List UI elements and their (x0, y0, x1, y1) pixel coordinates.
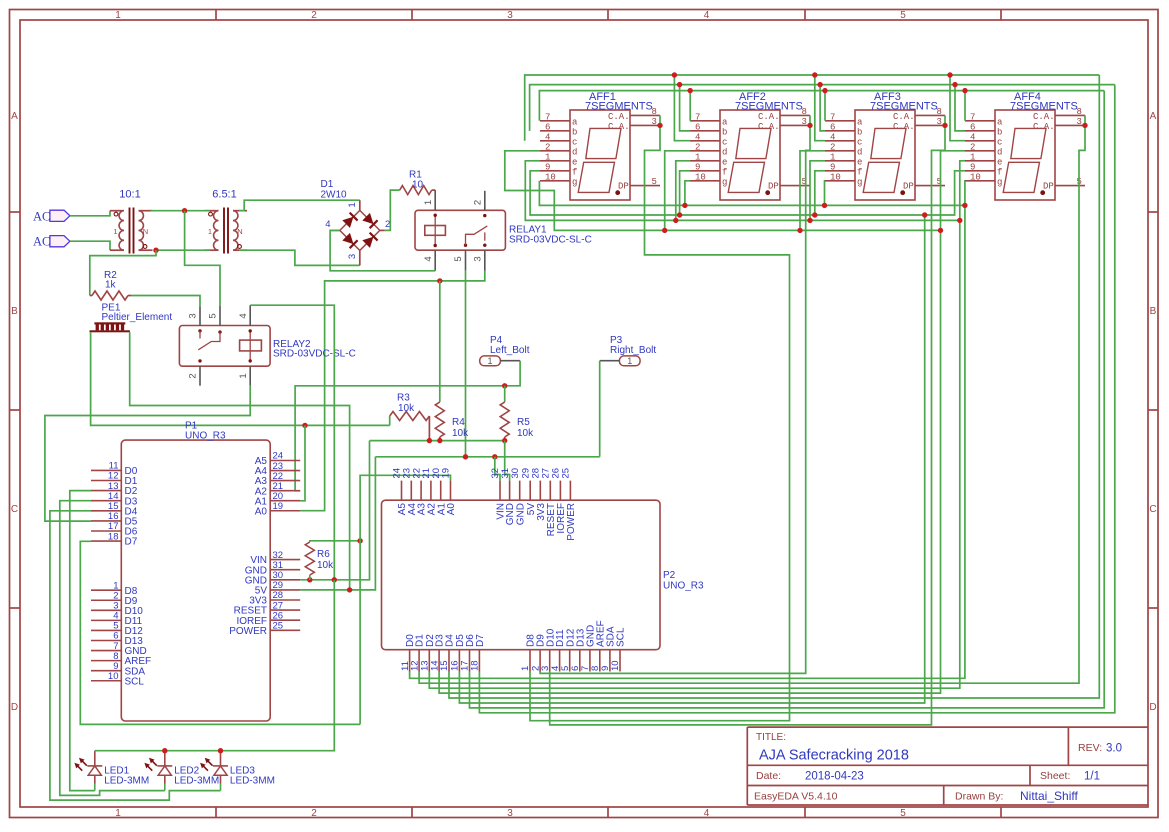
netport AC2 (50, 236, 70, 247)
resistor R5 10k (500, 402, 509, 437)
svg-text:LED-3MM: LED-3MM (174, 776, 219, 787)
wire AFF2 a up (689, 91, 691, 121)
svg-text:4: 4 (830, 132, 835, 142)
wire RELAY1 pin3 to A0 net (300, 271, 485, 511)
svg-text:6: 6 (695, 122, 700, 132)
svg-text:Drawn By:: Drawn By: (955, 791, 1003, 803)
svg-text:9: 9 (545, 162, 550, 172)
svg-text:C.A.: C.A. (608, 112, 630, 122)
svg-text:g: g (572, 177, 577, 187)
svg-text:2018-04-23: 2018-04-23 (805, 771, 864, 783)
wire P1 D3 to LED2 (60, 501, 165, 796)
svg-text:d: d (572, 147, 577, 157)
wire bus f (y=215.0) (530, 171, 965, 215)
svg-text:SCL: SCL (125, 676, 145, 687)
svg-text:3: 3 (1077, 117, 1082, 127)
wire AFF2 f down (680, 171, 691, 215)
svg-text:5: 5 (900, 10, 906, 21)
node AFF2 CA junction (807, 123, 812, 128)
svg-text:LED-3MM: LED-3MM (230, 776, 275, 787)
svg-text:B: B (1150, 306, 1157, 317)
svg-text:D4: D4 (445, 634, 456, 647)
svg-text:1: 1 (830, 152, 835, 162)
svg-text:UNO_R3: UNO_R3 (185, 431, 226, 442)
wire bus a down to P2 D6 (470, 91, 1105, 708)
svg-text:18: 18 (470, 660, 481, 671)
wire junction down to RELAY2 pin5 (185, 211, 220, 306)
svg-text:a: a (722, 117, 728, 127)
svg-text:2: 2 (545, 142, 550, 152)
svg-text:2: 2 (830, 142, 835, 152)
svg-text:Date:: Date: (756, 770, 781, 782)
svg-text:5: 5 (453, 256, 464, 261)
connector P4 Left_Bolt (480, 335, 530, 366)
svg-text:C.A.: C.A. (1033, 112, 1055, 122)
wire R1 to RELAY1 pin1 (432, 189, 436, 191)
svg-text:2: 2 (473, 200, 484, 205)
wire AFF4 d down to P2 D3 (439, 151, 965, 693)
svg-text:g: g (997, 177, 1002, 187)
wire bus c down to P2 D4 (449, 75, 1099, 698)
wire bus f down to P2 D5 (459, 215, 924, 703)
svg-text:AC: AC (33, 235, 50, 249)
svg-text:2: 2 (311, 10, 317, 21)
svg-text:2: 2 (311, 808, 317, 819)
wire AFF4 e down to P2 D2 (429, 161, 965, 688)
svg-text:AFF1: AFF1 (589, 91, 616, 103)
svg-text:e: e (997, 157, 1002, 167)
svg-text:e: e (722, 157, 727, 167)
svg-text:3: 3 (473, 256, 484, 261)
node VIN32 junction (492, 454, 497, 459)
svg-text:6: 6 (545, 122, 550, 132)
wire PE1 left to A1 net (91, 332, 390, 425)
wire T2 secondary top to D1 pin1 (239, 200, 360, 211)
node AFF2 f junction (677, 212, 682, 217)
svg-text:10: 10 (970, 172, 981, 182)
node AFF1 CA junction (657, 123, 662, 128)
svg-text:g: g (722, 177, 727, 187)
wire P1 D4 to LED3 (50, 511, 221, 800)
svg-text:7: 7 (545, 112, 550, 122)
svg-text:C.A.: C.A. (1033, 122, 1055, 132)
svg-text:8: 8 (652, 107, 657, 117)
peltier element PE1 (90, 303, 173, 333)
node AFF3 a junction (822, 88, 827, 93)
node AFF2 a junction (688, 88, 693, 93)
wire GND bus (370, 440, 505, 442)
svg-text:3: 3 (802, 117, 807, 127)
node AFF3 e junction (807, 218, 812, 223)
wire bus g (y=205.4) (539, 181, 965, 206)
svg-text:Nittai_Shiff: Nittai_Shiff (1020, 789, 1078, 803)
svg-text:b: b (997, 127, 1002, 137)
svg-text:3: 3 (188, 313, 199, 318)
wire VIN bus down to 5V row (300, 457, 375, 590)
svg-text:A: A (1150, 111, 1157, 122)
wire bus e (y=220.4) (525, 161, 960, 221)
svg-text:f: f (997, 167, 1002, 177)
svg-text:1k: 1k (105, 280, 117, 291)
transformer T1 10:1 (110, 189, 153, 254)
wire P1 D2 to LED1 (70, 491, 95, 791)
wire GND31 from GND bus (505, 441, 510, 481)
svg-text:9: 9 (830, 162, 835, 172)
svg-text:g: g (857, 177, 862, 187)
wire AFF2 d down (665, 151, 691, 231)
transformer T2 6.5:1 (205, 189, 248, 254)
svg-text:AJA Safecracking 2018: AJA Safecracking 2018 (759, 748, 909, 764)
wire P3 down to VIN bus (599, 361, 601, 457)
wire LED anode bus (95, 580, 334, 751)
svg-text:9: 9 (695, 162, 700, 172)
wire R6 top to A0/D7 net (310, 541, 360, 542)
svg-text:1: 1 (113, 227, 117, 236)
svg-text:2: 2 (695, 142, 700, 152)
wire RELAY1 pin5 down to 5V bus (465, 270, 467, 456)
wire VIN32 from VIN bus (495, 457, 500, 481)
node A1 junction (302, 423, 307, 428)
svg-text:3: 3 (507, 808, 513, 819)
wire AFF4 c up (950, 75, 965, 141)
svg-text:REV:: REV: (1078, 742, 1102, 754)
svg-text:C.A.: C.A. (758, 112, 780, 122)
title block (747, 727, 1148, 805)
node R4 bottom junction (437, 438, 442, 443)
svg-text:2: 2 (188, 373, 199, 378)
svg-text:d: d (997, 147, 1002, 157)
svg-text:GND: GND (515, 503, 526, 525)
svg-text:SCL: SCL (616, 627, 627, 647)
svg-text:10k: 10k (452, 428, 469, 439)
svg-text:AC: AC (33, 209, 50, 223)
svg-text:10: 10 (412, 180, 424, 191)
svg-text:f: f (722, 167, 727, 177)
relay RELAY2 SRD-03VDC-SL-C (179, 305, 355, 386)
svg-text:a: a (572, 117, 578, 127)
wire AFF3 CA to P2 D10 (550, 115, 945, 725)
svg-text:d: d (722, 147, 727, 157)
resistor R4 10k (435, 402, 444, 437)
bridge rectifier D1 2W10 (321, 179, 391, 265)
svg-text:EasyEDA V5.4.10: EasyEDA V5.4.10 (754, 791, 838, 803)
svg-text:3: 3 (507, 10, 513, 21)
arduino P2 UNO_R3 (382, 468, 705, 672)
svg-text:Sheet:: Sheet: (1040, 770, 1070, 782)
svg-text:SRD-03VDC-SL-C: SRD-03VDC-SL-C (509, 235, 592, 246)
node R6 top junction (357, 538, 362, 543)
node T1 secondary bottom junction (153, 248, 158, 253)
svg-text:10: 10 (830, 172, 841, 182)
wire P4 to A2 net (295, 361, 520, 491)
wire D1 pin2 to R1 (385, 190, 400, 230)
wire T2 secondary bottom to D1 pin3 (239, 250, 360, 265)
svg-text:Right_Bolt: Right_Bolt (610, 345, 656, 356)
svg-text:C: C (1149, 504, 1156, 515)
svg-text:DP: DP (903, 182, 914, 192)
svg-text:1/1: 1/1 (1084, 771, 1100, 783)
wire bus c (y=75) (525, 75, 1100, 141)
node AFF2 c junction (672, 72, 677, 77)
svg-text:1: 1 (627, 356, 632, 366)
svg-text:f: f (857, 167, 862, 177)
svg-text:4: 4 (545, 132, 550, 142)
svg-text:19: 19 (273, 501, 284, 512)
wire AFF4 g down to P2 D0 (410, 181, 965, 679)
7-segment display AFF3 (825, 91, 945, 200)
svg-text:D1: D1 (321, 179, 334, 190)
svg-text:1: 1 (115, 10, 121, 21)
svg-text:Peltier_Element: Peltier_Element (102, 312, 173, 323)
node AFF3 c junction (812, 72, 817, 77)
svg-text:c: c (722, 137, 727, 147)
node AFF3 d junction (797, 228, 802, 233)
svg-text:10k: 10k (517, 428, 534, 439)
svg-text:10k: 10k (398, 403, 415, 414)
svg-text:3: 3 (937, 117, 942, 127)
node AFF3 CA junction (942, 123, 947, 128)
svg-text:N: N (237, 227, 242, 236)
svg-text:19: 19 (441, 468, 452, 479)
node AFF3 g junction (822, 203, 827, 208)
wire AFF3 a up (824, 91, 826, 121)
svg-text:C.A.: C.A. (893, 122, 915, 132)
svg-text:10: 10 (695, 172, 706, 182)
svg-text:4: 4 (238, 313, 249, 318)
svg-text:c: c (857, 137, 862, 147)
node AFF4 CA junction (1082, 123, 1087, 128)
svg-text:3.0: 3.0 (1106, 743, 1122, 755)
svg-text:D7: D7 (475, 634, 486, 647)
svg-text:5: 5 (900, 808, 906, 819)
svg-text:R6: R6 (317, 549, 330, 560)
svg-text:a: a (857, 117, 863, 127)
svg-text:e: e (572, 157, 577, 167)
svg-text:D: D (1149, 702, 1156, 713)
svg-text:7: 7 (830, 112, 835, 122)
svg-text:10: 10 (545, 172, 556, 182)
svg-text:B: B (11, 306, 18, 317)
svg-text:6.5:1: 6.5:1 (212, 189, 236, 201)
svg-text:C: C (11, 504, 18, 515)
node AFF4 c junction (947, 72, 952, 77)
svg-text:POWER: POWER (229, 626, 267, 637)
svg-text:R4: R4 (452, 417, 465, 428)
svg-text:a: a (997, 117, 1003, 127)
svg-text:18: 18 (108, 531, 119, 542)
wire VIN bus (375, 456, 599, 458)
svg-text:8: 8 (1077, 107, 1082, 117)
wire junction down to R4 (439, 281, 441, 402)
node R3 bottom junction (427, 438, 432, 443)
svg-text:C.A.: C.A. (608, 122, 630, 132)
svg-text:DP: DP (1043, 182, 1054, 192)
svg-text:3: 3 (652, 117, 657, 127)
node AFF2 e junction (673, 218, 678, 223)
wire R2 to RELAY2 pin3 (131, 296, 200, 307)
svg-text:c: c (997, 137, 1002, 147)
node LED3 anode junction (218, 748, 223, 753)
svg-text:7: 7 (695, 112, 700, 122)
svg-text:1: 1 (208, 227, 212, 236)
svg-text:15: 15 (439, 660, 450, 671)
svg-text:5: 5 (208, 313, 219, 318)
node AFF2 d junction (662, 228, 667, 233)
wire AFF4 CA to P2 D1 (419, 115, 1085, 683)
svg-text:4: 4 (970, 132, 975, 142)
wire bus b down to P2 D7 (479, 85, 1114, 713)
resistor R1 10 (400, 186, 432, 195)
svg-text:1: 1 (970, 152, 975, 162)
svg-text:LED-3MM: LED-3MM (104, 776, 149, 787)
svg-text:8: 8 (937, 107, 942, 117)
LED3 LED-3MM (198, 751, 275, 791)
svg-text:25: 25 (561, 468, 572, 479)
resistor R2 1k (92, 291, 128, 300)
wire AFF2 c up (674, 75, 690, 141)
svg-text:C.A.: C.A. (893, 112, 915, 122)
wire AFF3 c up (815, 75, 825, 141)
svg-text:10: 10 (108, 671, 119, 682)
wire AFF3 b up (820, 85, 825, 131)
node R5 bottom junction (502, 438, 507, 443)
wire D7/A0net vertical (360, 475, 450, 724)
svg-text:1: 1 (115, 808, 121, 819)
svg-text:AFF3: AFF3 (874, 91, 901, 103)
wire R3 right down to GND bus (428, 416, 430, 441)
wire AFF3 e down (810, 161, 825, 221)
node RELAY1 pin3/R4 junction (437, 278, 442, 283)
node AFF2 g junction (682, 203, 687, 208)
svg-text:4: 4 (695, 132, 700, 142)
node AFF4 g junction (962, 203, 967, 208)
7-segment display AFF2 (690, 91, 810, 200)
svg-text:D7: D7 (125, 537, 138, 548)
wire AFF2 g down (685, 181, 690, 206)
wire bus b (y=84.6) (530, 85, 1115, 131)
svg-text:4: 4 (423, 256, 434, 261)
node P4/R5 junction (502, 383, 507, 388)
node AFF4 b junction (952, 82, 957, 87)
wire AFF3 f down (815, 171, 825, 215)
svg-text:AFF4: AFF4 (1014, 91, 1041, 103)
wire D1 pin4 to RELAY1 pin4 (330, 230, 435, 270)
node R6 bottom GND junction (307, 577, 312, 582)
svg-text:UNO_R3: UNO_R3 (663, 580, 704, 591)
node AFF4 a junction (962, 88, 967, 93)
svg-text:5: 5 (652, 177, 657, 187)
svg-text:b: b (722, 127, 727, 137)
wire RELAY2 pin4 to GND row (250, 305, 334, 580)
svg-text:D: D (11, 702, 18, 713)
wire AC1 to T1 (70, 211, 110, 216)
svg-text:A0: A0 (446, 503, 457, 516)
svg-text:3: 3 (347, 254, 358, 259)
wire AFF4 b up (955, 85, 965, 131)
svg-text:A: A (11, 111, 18, 122)
connector P3 Right_Bolt (600, 335, 657, 366)
LED1 LED-3MM (73, 751, 150, 791)
wire AFF2 CA to P2 D9 (540, 115, 810, 673)
svg-text:R5: R5 (517, 417, 530, 428)
wire AFF4 a up (964, 91, 966, 121)
svg-text:2W10: 2W10 (321, 190, 348, 201)
svg-text:6: 6 (830, 122, 835, 132)
node PE1/5V junction (347, 587, 352, 592)
svg-text:4: 4 (325, 219, 330, 230)
svg-text:6: 6 (970, 122, 975, 132)
wire RELAY2 pin1 to P1 D5 (45, 385, 250, 521)
svg-text:e: e (857, 157, 862, 167)
node RELAY1 pin5 VIN junction (463, 454, 468, 459)
node RELAY2 pin4 GND junction (332, 577, 337, 582)
wire T1 secondary bottom to T2 primary bottom (156, 249, 210, 251)
wire T1 secondary top to T2 primary top (151, 210, 211, 212)
svg-text:1: 1 (423, 200, 434, 205)
svg-text:7: 7 (970, 112, 975, 122)
wire R5 bottom (504, 437, 506, 441)
wire junction down to P1 A1 (300, 425, 305, 500)
svg-text:4: 4 (704, 10, 710, 21)
wire AFF1 CA to P2 D8 (530, 115, 790, 720)
resistor R6 10k (305, 542, 314, 575)
svg-text:b: b (857, 127, 862, 137)
svg-text:DP: DP (768, 182, 779, 192)
wire bus d (y=230.4) (505, 151, 941, 231)
svg-text:R3: R3 (397, 393, 410, 404)
node T1-T2 top junction (182, 208, 187, 213)
node AFF4 e junction (957, 218, 962, 223)
svg-text:c: c (572, 137, 577, 147)
svg-text:C.A.: C.A. (758, 122, 780, 132)
svg-text:1: 1 (695, 152, 700, 162)
wire AFF2 b up (680, 85, 691, 131)
wire A1 net up to R3 (389, 416, 391, 425)
svg-text:SRD-03VDC-SL-C: SRD-03VDC-SL-C (273, 349, 356, 360)
wire R6 bottom to GND row (309, 575, 311, 580)
node bus f descent junction (922, 212, 927, 217)
resistor R3 10k (390, 412, 430, 421)
svg-text:2: 2 (970, 142, 975, 152)
svg-text:TITLE:: TITLE: (756, 732, 786, 743)
wire D7 to net (80, 541, 360, 724)
arduino P1 UNO_R3 (91, 421, 300, 722)
wire bus a (y=90.6) (539, 91, 1104, 121)
node AFF2 b junction (677, 82, 682, 87)
svg-text:8: 8 (802, 107, 807, 117)
wire junction to R2 left (90, 250, 156, 295)
svg-text:d: d (857, 147, 862, 157)
LED2 LED-3MM (143, 751, 220, 791)
svg-text:f: f (572, 167, 577, 177)
svg-text:POWER: POWER (566, 503, 577, 541)
svg-text:AFF2: AFF2 (739, 91, 766, 103)
svg-text:DP: DP (618, 182, 629, 192)
svg-text:Left_Bolt: Left_Bolt (490, 345, 530, 356)
node AFF3 f junction (812, 212, 817, 217)
7-segment display AFF1 (540, 91, 660, 200)
svg-text:9: 9 (970, 162, 975, 172)
svg-text:4: 4 (704, 808, 710, 819)
svg-text:10k: 10k (317, 560, 334, 571)
wire AC2 to T1 (70, 241, 110, 250)
wire AFF3 g down (824, 181, 827, 206)
wire AFF3 d down (800, 151, 825, 231)
svg-text:A0: A0 (255, 506, 268, 517)
svg-text:N: N (143, 227, 148, 236)
svg-text:30: 30 (510, 468, 521, 479)
node AFF3 b junction (817, 82, 822, 87)
